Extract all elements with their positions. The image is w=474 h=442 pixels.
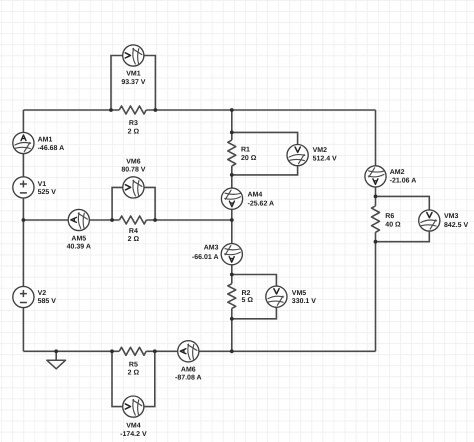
svg-text:R3: R3 xyxy=(129,120,138,127)
voltmeter VM6 xyxy=(123,177,144,198)
svg-text:40.39 A: 40.39 A xyxy=(67,244,91,251)
svg-text:330.1 V: 330.1 V xyxy=(292,298,316,305)
wire middle branch mid xyxy=(231,166,233,284)
wire middle branch lower xyxy=(231,308,233,351)
wire right vertical lower xyxy=(375,232,377,351)
voltmeter VM3 xyxy=(419,210,440,231)
svg-text:AM4: AM4 xyxy=(248,192,263,199)
svg-text:V1: V1 xyxy=(38,181,47,188)
ammeter AM6 xyxy=(178,341,199,362)
junction middle wire left xyxy=(22,218,26,222)
wire VM5 loop xyxy=(232,275,277,319)
ammeter AM5 xyxy=(68,209,89,230)
ammeter AM3 xyxy=(221,244,242,265)
voltmeter VM4 xyxy=(123,396,144,417)
voltmeter VM2 xyxy=(287,145,308,166)
svg-text:VM6: VM6 xyxy=(126,158,141,165)
svg-text:-66.01 A: -66.01 A xyxy=(192,254,219,261)
svg-text:2 Ω: 2 Ω xyxy=(128,129,140,136)
wire VM1 loop xyxy=(111,56,155,111)
junction VM2 bottom xyxy=(230,173,234,177)
svg-text:V2: V2 xyxy=(38,290,47,297)
wire middle horizontal right xyxy=(146,219,231,221)
svg-text:5 Ω: 5 Ω xyxy=(242,297,254,304)
svg-text:R5: R5 xyxy=(129,361,138,368)
wire VM4 loop xyxy=(112,351,155,406)
voltage source V2 xyxy=(13,286,34,307)
resistor R3 xyxy=(119,106,146,114)
svg-text:525 V: 525 V xyxy=(38,189,57,196)
wire VM6 loop xyxy=(112,187,155,220)
svg-text:R1: R1 xyxy=(241,146,250,153)
ammeter AM2 xyxy=(365,166,386,187)
ammeter AM1 xyxy=(13,132,34,153)
svg-text:AM1: AM1 xyxy=(38,137,53,144)
svg-text:AM3: AM3 xyxy=(204,245,219,252)
wire top left horizontal xyxy=(23,109,119,111)
junction VM5 top xyxy=(230,273,234,277)
resistor R6 xyxy=(372,206,380,232)
junction VM1 right xyxy=(154,108,158,112)
svg-text:40 Ω: 40 Ω xyxy=(385,221,401,228)
voltage source V1 xyxy=(13,177,34,198)
svg-text:20 Ω: 20 Ω xyxy=(241,155,257,162)
svg-text:VM1: VM1 xyxy=(126,71,141,78)
junction bottom middle branch xyxy=(230,349,234,353)
svg-text:842.5 V: 842.5 V xyxy=(444,222,468,229)
junction VM3 top xyxy=(374,195,378,199)
svg-text:VM4: VM4 xyxy=(126,423,141,430)
svg-text:VM3: VM3 xyxy=(444,213,459,220)
svg-text:512.4 V: 512.4 V xyxy=(313,156,337,163)
svg-text:93.37 V: 93.37 V xyxy=(121,79,145,86)
resistor R5 xyxy=(119,347,146,355)
resistor R2 xyxy=(228,284,236,309)
junction VM2 top xyxy=(230,131,234,135)
wire middle branch upper xyxy=(231,110,233,140)
resistor R4 xyxy=(119,216,146,224)
junction VM3 bottom xyxy=(374,240,378,244)
junction VM6 left xyxy=(110,218,114,222)
svg-text:VM2: VM2 xyxy=(313,147,328,154)
svg-text:R4: R4 xyxy=(129,228,138,235)
junction VM6 right xyxy=(153,218,157,222)
wire top right horizontal xyxy=(146,109,375,111)
svg-text:AM5: AM5 xyxy=(71,236,86,243)
svg-text:2 Ω: 2 Ω xyxy=(128,236,140,243)
junction top middle branch xyxy=(230,108,234,112)
svg-text:AM6: AM6 xyxy=(181,367,196,374)
wire ground stub xyxy=(55,351,57,360)
svg-text:2 Ω: 2 Ω xyxy=(128,369,140,376)
svg-text:-174.2 V: -174.2 V xyxy=(120,431,147,438)
voltmeter VM5 xyxy=(266,286,287,307)
svg-text:80.78 V: 80.78 V xyxy=(121,166,145,173)
junction VM4 left xyxy=(110,349,114,353)
svg-text:AM2: AM2 xyxy=(390,169,405,176)
wire bottom left xyxy=(23,350,119,352)
wire bottom right xyxy=(146,350,375,352)
svg-text:R6: R6 xyxy=(385,213,394,220)
svg-text:-21.06 A: -21.06 A xyxy=(390,177,417,184)
junction VM5 bottom xyxy=(230,317,234,321)
wire VM2 loop xyxy=(232,132,298,175)
wire right vertical upper xyxy=(375,110,377,206)
junction ground xyxy=(54,349,58,353)
junction VM4 right xyxy=(153,349,157,353)
voltmeter VM1 xyxy=(123,45,144,66)
ammeter AM4 xyxy=(221,188,242,209)
svg-text:-87.08 A: -87.08 A xyxy=(175,375,202,382)
wire left vertical xyxy=(22,110,24,351)
svg-text:-25.62 A: -25.62 A xyxy=(248,201,275,208)
svg-text:585 V: 585 V xyxy=(38,298,57,305)
svg-text:-46.68 A: -46.68 A xyxy=(38,145,65,152)
ground xyxy=(47,360,66,369)
junction VM1 left xyxy=(109,108,113,112)
wire middle horizontal left xyxy=(23,219,119,221)
wire VM3 loop xyxy=(376,196,430,241)
resistor R1 xyxy=(228,140,236,166)
junction middle wire right xyxy=(230,218,234,222)
svg-text:VM5: VM5 xyxy=(292,290,307,297)
